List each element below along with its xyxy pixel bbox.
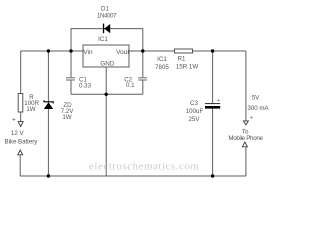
svg-text:C3: C3 — [190, 100, 198, 107]
svg-text:GND: GND — [100, 61, 114, 68]
wire output plus branch — [245, 51, 247, 121]
wire ground node line C1-C2 — [71, 93, 143, 95]
node battery plus terminal arrow — [18, 122, 23, 127]
svg-text:100uF: 100uF — [186, 108, 204, 115]
wire C2 top leg — [142, 51, 144, 77]
capacitor C3 100uF 25V electrolytic — [186, 98, 220, 123]
wire C3 top leg — [212, 51, 214, 103]
svg-text:electroschematics.com: electroschematics.com — [89, 160, 199, 172]
wire C1 bottom leg — [70, 80, 72, 94]
svg-text:12 V: 12 V — [11, 130, 25, 137]
diode D1 1N4007 — [97, 5, 117, 33]
node junction dot rail-zener top — [47, 49, 50, 52]
svg-text:15R 1W: 15R 1W — [176, 64, 199, 71]
wire C1 top leg — [70, 51, 72, 77]
svg-text:1W: 1W — [62, 114, 71, 121]
node junction dot ground line-GND pin — [105, 93, 108, 96]
resistor R1 15R 1W — [175, 49, 199, 71]
svg-text:5V: 5V — [252, 94, 260, 101]
wire top rail left (battery to Vin) — [21, 50, 83, 52]
wire D1 bypass branch — [71, 29, 143, 51]
wire zener branch lower — [47, 109, 49, 176]
node junction dot bottom rail-zener — [47, 174, 50, 177]
wire zener branch upper — [47, 51, 49, 102]
wire output minus branch — [245, 147, 247, 176]
resistor R 100R 1W — [18, 94, 39, 114]
wire below resistor R to + terminal — [20, 112, 22, 122]
svg-text:7805: 7805 — [155, 64, 169, 71]
svg-text:Vin: Vin — [83, 49, 93, 56]
svg-text:25V: 25V — [188, 116, 200, 123]
node junction dot rail-C3 top — [211, 49, 214, 52]
node battery minus terminal arrow — [18, 150, 23, 155]
capacitor C2 0.1 — [124, 76, 147, 88]
svg-text:R1: R1 — [178, 55, 186, 62]
svg-text:1N4007: 1N4007 — [97, 14, 117, 20]
wire top rail right (Vout to output corner) — [129, 50, 246, 52]
svg-text:+: + — [12, 116, 16, 123]
node output minus terminal arrow — [242, 142, 247, 147]
wire C2 bottom leg — [142, 80, 144, 94]
wire bottom rail — [20, 175, 246, 177]
node junction dot Vout-D1 right / C2 — [141, 49, 144, 52]
wire IC GND pin down — [105, 67, 107, 176]
svg-text:Bike Battery: Bike Battery — [5, 139, 39, 146]
svg-text:1W: 1W — [26, 106, 35, 113]
svg-text:IC1: IC1 — [157, 56, 167, 63]
node junction dot bottom rail-C3 — [211, 174, 214, 177]
svg-text:IC1: IC1 — [98, 36, 108, 43]
svg-text:Vout: Vout — [116, 49, 129, 56]
wire battery minus terminal to bottom rail — [19, 155, 21, 177]
svg-text:Mobile Phone: Mobile Phone — [228, 135, 263, 142]
svg-text:300 mA: 300 mA — [247, 105, 269, 112]
svg-text:D1: D1 — [101, 5, 109, 12]
node junction dot rail-D1 left / C1 — [69, 49, 72, 52]
op-amp region: IC1 7805 regulator box U1 — [83, 45, 129, 67]
svg-text:0.33: 0.33 — [79, 82, 92, 89]
svg-text:0.1: 0.1 — [126, 82, 135, 89]
zener diode ZD 7.2V — [44, 100, 74, 121]
wire left battery branch upper — [20, 51, 22, 94]
capacitor C1 0.33 — [66, 76, 92, 89]
wire C3 bottom leg — [212, 109, 214, 177]
svg-text:+: + — [217, 98, 220, 104]
node output plus terminal arrow — [243, 121, 248, 125]
